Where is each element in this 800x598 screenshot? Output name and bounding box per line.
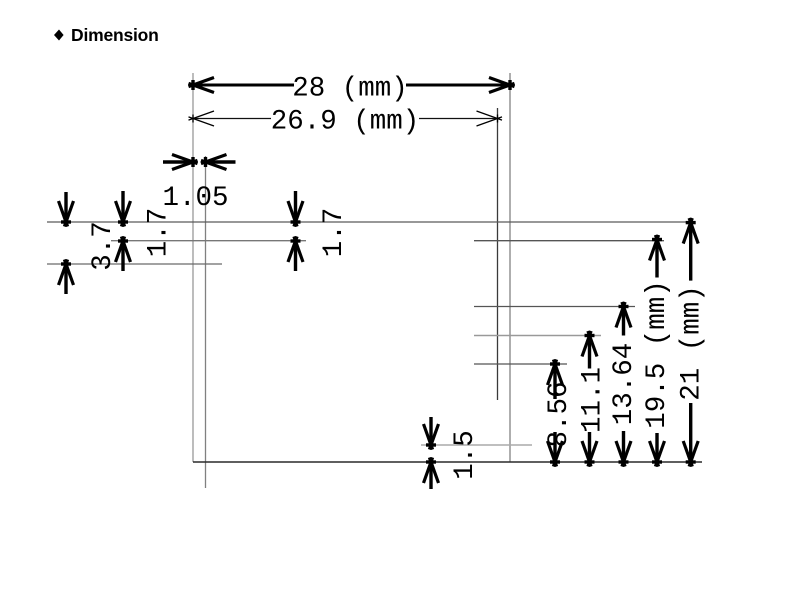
svg-text:19.5 (mm): 19.5 (mm) bbox=[642, 280, 673, 429]
svg-text:3.7: 3.7 bbox=[88, 221, 119, 271]
svg-text:1.5: 1.5 bbox=[450, 430, 481, 480]
svg-text:1.7: 1.7 bbox=[144, 208, 175, 258]
svg-text:Dimension: Dimension bbox=[71, 25, 159, 45]
svg-text:26.9 (mm): 26.9 (mm) bbox=[271, 107, 420, 138]
svg-text:28 (mm): 28 (mm) bbox=[292, 74, 408, 105]
svg-text:13.64: 13.64 bbox=[609, 343, 640, 426]
svg-text:21 (mm): 21 (mm) bbox=[677, 285, 708, 401]
svg-text:1.7: 1.7 bbox=[319, 208, 350, 258]
svg-text:11.1: 11.1 bbox=[578, 367, 609, 433]
svg-text:8.56: 8.56 bbox=[544, 381, 575, 447]
